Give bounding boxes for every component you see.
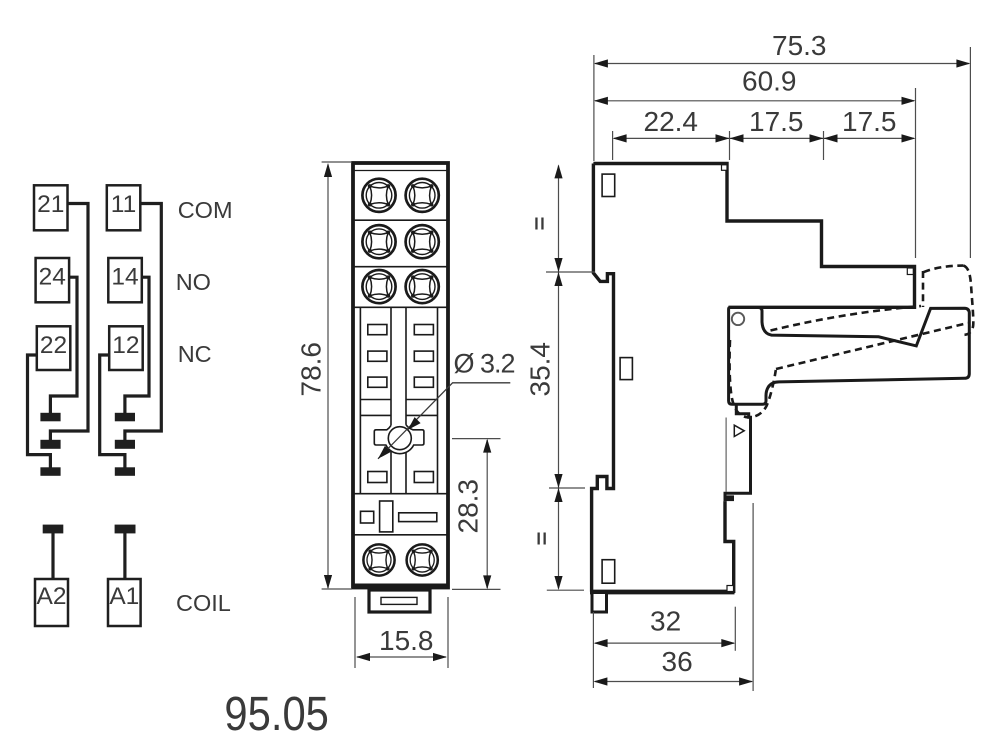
svg-text:17.5: 17.5 — [749, 106, 804, 137]
svg-text:75.3: 75.3 — [772, 30, 827, 61]
svg-text:60.9: 60.9 — [742, 66, 797, 97]
svg-text:11: 11 — [111, 191, 136, 218]
svg-text:Ø 3.2: Ø 3.2 — [454, 349, 515, 379]
svg-text:78.6: 78.6 — [296, 342, 327, 397]
svg-text:32: 32 — [650, 606, 681, 637]
svg-text:COM: COM — [178, 197, 233, 223]
svg-text:22: 22 — [40, 332, 67, 359]
svg-text:22.4: 22.4 — [644, 106, 699, 137]
svg-text:NC: NC — [178, 341, 212, 367]
svg-text:21: 21 — [37, 191, 64, 218]
svg-text:12: 12 — [112, 332, 139, 359]
svg-text:14: 14 — [111, 264, 138, 291]
svg-text:24: 24 — [39, 264, 66, 291]
svg-text:15.8: 15.8 — [379, 625, 434, 656]
svg-text:95.05: 95.05 — [224, 688, 329, 741]
svg-text:A2: A2 — [37, 583, 67, 610]
svg-text:28.3: 28.3 — [453, 479, 484, 534]
svg-text:17.5: 17.5 — [842, 106, 897, 137]
svg-text:A1: A1 — [109, 583, 139, 610]
svg-text:COIL: COIL — [176, 590, 231, 616]
svg-text:36: 36 — [662, 646, 693, 677]
svg-text:35.4: 35.4 — [525, 342, 556, 397]
svg-text:NO: NO — [176, 269, 211, 295]
